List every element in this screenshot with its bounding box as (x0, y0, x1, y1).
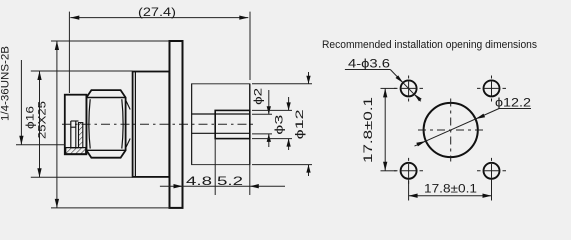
hex chamfer arc right (122, 99, 123, 148)
top extension line (31, 70, 133, 72)
svg-text:Recommended installation openi: Recommended installation opening dimensi… (322, 39, 537, 51)
dimension phi2 (252, 90, 272, 147)
dim line (70, 17, 248, 19)
arrow h17.8 right (483, 194, 492, 198)
collar wedge right bottom (126, 139, 130, 148)
arrow 25X25 bottom (55, 199, 59, 208)
thread bore line (70, 121, 72, 148)
svg-text:ϕ12: ϕ12 (294, 109, 306, 139)
leader 4-phi3.6 (345, 69, 390, 71)
hole top-right (484, 80, 500, 96)
vertical dimension 17.8 (381, 88, 397, 170)
crosshair hole top-left (394, 76, 423, 102)
dimension 4.8 / 5.2 (160, 139, 285, 195)
dim line upper (308, 72, 310, 84)
arrow phi3 bottom (286, 139, 290, 147)
svg-text:4-ϕ3.6: 4-ϕ3.6 (348, 57, 390, 71)
arrow phi12.2 upper-right (476, 114, 486, 119)
arrow 25X25 top (55, 41, 59, 50)
bore inner vertical (75, 121, 77, 148)
svg-text:5.2: 5.2 (217, 174, 243, 188)
top extension (252, 113, 272, 115)
arrow 4.8 left (174, 184, 183, 188)
bore top edge (71, 120, 79, 122)
collar wedge right top (126, 101, 130, 110)
dim line upper (288, 97, 290, 110)
rear cylinder phi12 outline (192, 84, 250, 165)
crosshair hole bottom-left (394, 158, 423, 184)
svg-text:ϕ12.2: ϕ12.2 (495, 96, 531, 110)
arrow 4-phi3.6 lower (414, 94, 422, 102)
arrow v17.8 top (383, 88, 387, 97)
dimension phi16 (31, 71, 133, 177)
top extension (252, 109, 292, 111)
dimension 25X25 (51, 41, 170, 208)
crosshair hole top-right (477, 76, 506, 102)
arrow phi16 bottom (37, 168, 41, 177)
center circle phi12.2 (424, 103, 478, 157)
centerline (62, 123, 257, 125)
arrow 4-phi3.6 upper (396, 75, 404, 83)
hole bottom-left (401, 163, 417, 179)
svg-text:ϕ3: ϕ3 (274, 115, 286, 135)
bottom extension (252, 164, 312, 166)
body cylinder phi16 (133, 72, 170, 177)
svg-text:(27.4): (27.4) (138, 5, 176, 19)
bottom extension (252, 133, 272, 135)
bottom extension line (51, 207, 170, 209)
thread leader arrow (19, 136, 23, 145)
dim line upper (268, 90, 270, 114)
thread leader 1/4-36UNS-2B (20, 60, 22, 145)
arrow phi2 top (267, 106, 271, 114)
extension at 215.2 (214, 139, 216, 195)
dim line (409, 195, 492, 197)
arrow right 27.4 (239, 15, 248, 19)
svg-text:17.8±0.1: 17.8±0.1 (363, 97, 375, 163)
arrow phi2 bottom (267, 134, 271, 142)
rear cylinder end face (249, 84, 251, 165)
flange (170, 41, 183, 208)
dim line (384, 88, 386, 170)
top extension (381, 87, 397, 89)
dimension phi12 (252, 72, 312, 176)
arrow v17.8 bottom (383, 162, 387, 171)
dim line lower (288, 139, 290, 150)
thread extension line (16, 144, 65, 146)
svg-text:25X25: 25X25 (37, 101, 49, 139)
svg-text:17.8±0.1: 17.8±0.1 (424, 183, 477, 195)
dim line (56, 41, 58, 208)
top extension line (51, 40, 170, 42)
pin lines phi2 (192, 113, 250, 115)
section hatch channel (79, 123, 83, 148)
right extension (491, 179, 493, 201)
horizontal dimension 17.8 (409, 179, 492, 201)
hex face boundary bottom (86, 149, 125, 151)
leader shoulder phi12.2 (499, 108, 531, 110)
arrow phi3 top (286, 102, 290, 110)
arrow phi12 bottom (306, 165, 310, 173)
bore bottom edge (71, 147, 79, 149)
hole top-left (401, 80, 417, 96)
arrow phi16 top (37, 71, 41, 80)
left extension line (68, 12, 70, 93)
extension at 249.8 (249, 165, 251, 195)
bottom extension (252, 138, 292, 140)
top extension (252, 83, 312, 85)
svg-text:1/4-36UNS-2B: 1/4-36UNS-2B (0, 46, 12, 121)
washer double line (134, 72, 136, 177)
leader phi12.2 (415, 109, 500, 147)
crosshair hole bottom-right (477, 158, 506, 184)
arrow phi12.2 lower-left (416, 141, 426, 146)
hole bottom-right (484, 163, 500, 179)
arrow 5.2 right (250, 184, 259, 188)
dim line lower (308, 165, 310, 176)
arrow left 27.4 (70, 15, 79, 19)
arrow phi12 top (306, 76, 310, 84)
right extension line (249, 12, 251, 80)
bore step edge (71, 126, 76, 128)
dim line lower (268, 134, 270, 147)
hex chamfer arc left (89, 99, 90, 148)
crosshair center circle (418, 99, 484, 162)
hex nut silhouette (86, 90, 125, 158)
rear cylinder front face (191, 84, 193, 165)
coupling-nut front rim (65, 95, 87, 155)
left extension (408, 179, 410, 201)
dimension (27.4) (69, 12, 250, 93)
section hatch band (66, 148, 86, 154)
insulator tube phi3 (215, 110, 250, 138)
dim line (160, 185, 285, 187)
svg-text:ϕ2: ϕ2 (252, 88, 264, 105)
dim line (39, 71, 41, 177)
bottom extension (381, 170, 397, 172)
hex face boundary top (86, 97, 125, 99)
arrow h17.8 left (409, 194, 418, 198)
dimension phi3 (252, 97, 292, 150)
svg-text:ϕ16: ϕ16 (25, 106, 37, 129)
svg-text:4.8: 4.8 (186, 174, 212, 188)
bottom extension line (31, 176, 133, 178)
